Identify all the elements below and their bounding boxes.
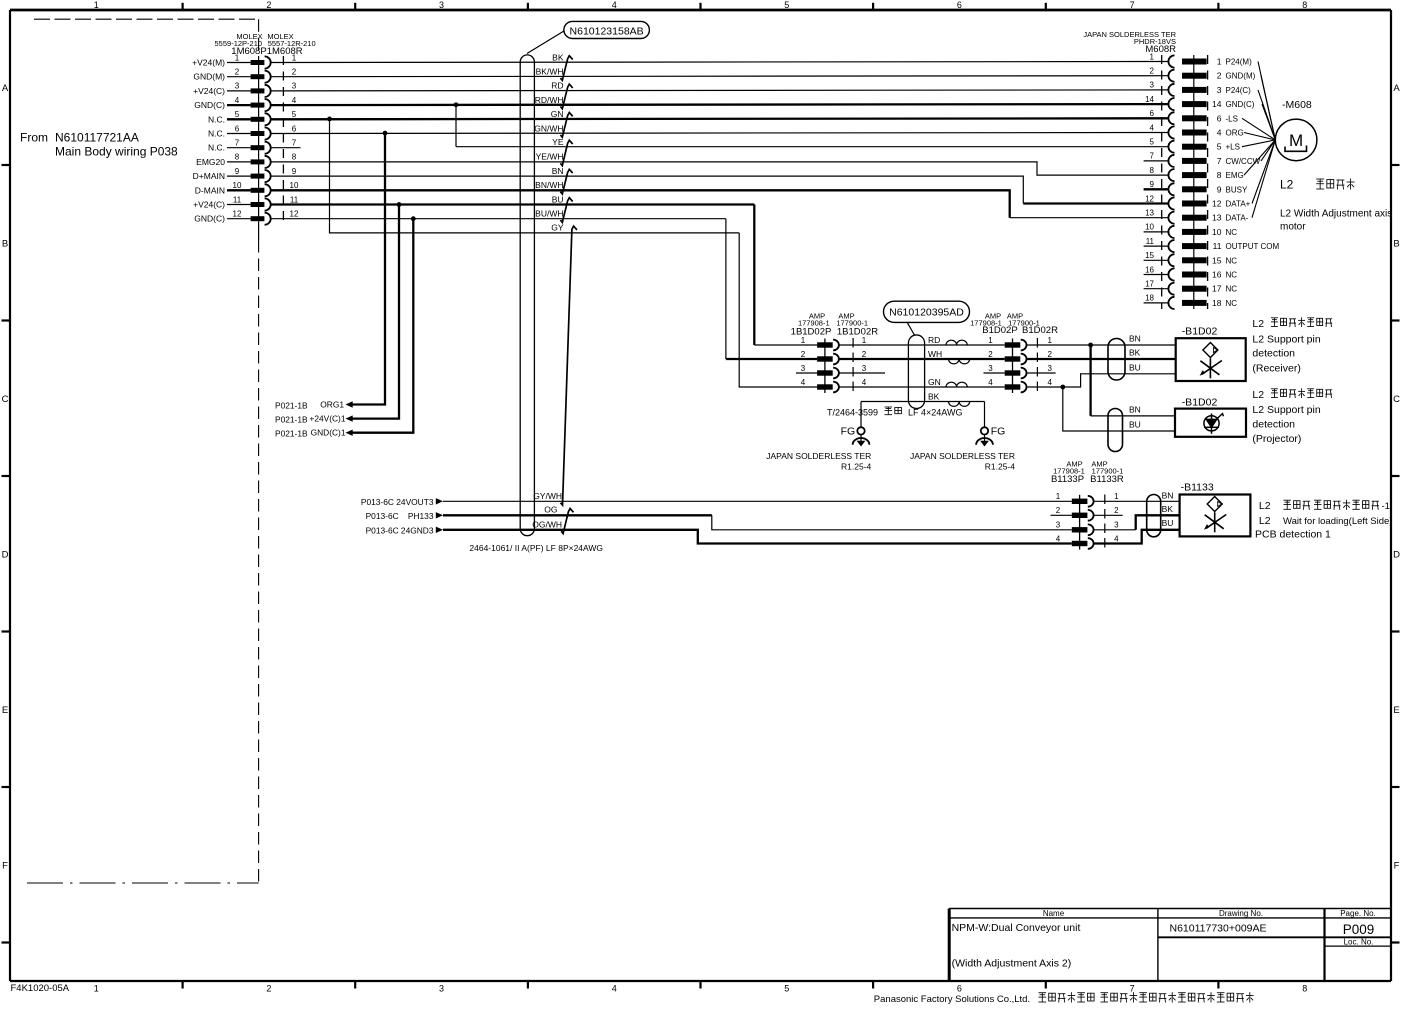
svg-text:GND(C): GND(C) bbox=[194, 214, 225, 224]
svg-text:T/2464-3599: T/2464-3599 bbox=[827, 408, 878, 418]
svg-text:10: 10 bbox=[233, 181, 242, 190]
svg-text:FG: FG bbox=[991, 425, 1006, 437]
svg-text:NC: NC bbox=[1226, 228, 1238, 237]
svg-text:3: 3 bbox=[439, 984, 444, 994]
svg-text:10: 10 bbox=[290, 181, 299, 190]
svg-text:C: C bbox=[2, 394, 9, 405]
svg-text:3: 3 bbox=[292, 82, 297, 91]
svg-text:6: 6 bbox=[1150, 109, 1155, 118]
svg-text:4: 4 bbox=[801, 378, 806, 387]
svg-text:GND(C)1: GND(C)1 bbox=[311, 428, 346, 438]
svg-text:N.C.: N.C. bbox=[208, 114, 225, 124]
svg-text:4: 4 bbox=[612, 984, 617, 994]
svg-text:2: 2 bbox=[266, 0, 271, 10]
svg-text:6: 6 bbox=[957, 984, 962, 994]
svg-text:F4K1020-05A: F4K1020-05A bbox=[11, 983, 70, 994]
svg-text:P013-6C: P013-6C bbox=[366, 525, 399, 535]
svg-text:L2: L2 bbox=[1259, 515, 1271, 527]
svg-text:6: 6 bbox=[235, 124, 240, 133]
svg-text:L2: L2 bbox=[1280, 178, 1294, 192]
svg-text:GND(C): GND(C) bbox=[194, 100, 225, 110]
svg-text:2: 2 bbox=[292, 68, 297, 77]
svg-text:D: D bbox=[1393, 549, 1400, 560]
svg-text:GY/WH: GY/WH bbox=[533, 491, 562, 501]
svg-text:Page. No.: Page. No. bbox=[1340, 909, 1376, 918]
svg-text:5: 5 bbox=[235, 110, 240, 119]
svg-text:P013-6C 24VOUT3: P013-6C 24VOUT3 bbox=[361, 497, 434, 507]
svg-text:EMG: EMG bbox=[1226, 171, 1244, 180]
svg-text:11: 11 bbox=[1213, 241, 1222, 251]
svg-text:L2: L2 bbox=[1259, 500, 1271, 512]
svg-text:BN/WH: BN/WH bbox=[535, 180, 563, 190]
svg-text:9: 9 bbox=[1150, 180, 1155, 189]
svg-text:7: 7 bbox=[1150, 152, 1155, 161]
svg-text:7: 7 bbox=[1130, 984, 1135, 994]
svg-text:3: 3 bbox=[439, 0, 444, 10]
svg-text:4: 4 bbox=[1114, 534, 1119, 543]
svg-text:1: 1 bbox=[94, 0, 99, 10]
svg-text:12: 12 bbox=[1212, 199, 1222, 209]
svg-text:BU: BU bbox=[1129, 420, 1141, 430]
svg-text:JAPAN SOLDERLESS TER: JAPAN SOLDERLESS TER bbox=[910, 451, 1015, 461]
svg-text:14: 14 bbox=[1212, 99, 1222, 109]
svg-text:LF 4×24AWG: LF 4×24AWG bbox=[908, 408, 962, 418]
svg-text:A: A bbox=[1393, 83, 1400, 94]
svg-text:R1.25-4: R1.25-4 bbox=[841, 462, 872, 472]
svg-text:14: 14 bbox=[1145, 95, 1154, 104]
svg-text:2464-1061/ II A(PF) LF 8P×24AW: 2464-1061/ II A(PF) LF 8P×24AWG bbox=[469, 543, 603, 553]
svg-text:P24(M): P24(M) bbox=[1226, 58, 1253, 67]
svg-text:7: 7 bbox=[235, 139, 240, 148]
svg-text:9: 9 bbox=[1217, 184, 1222, 194]
svg-text:12: 12 bbox=[1145, 194, 1154, 203]
svg-text:BN: BN bbox=[1129, 334, 1141, 344]
svg-text:B1133P: B1133P bbox=[1051, 474, 1084, 485]
svg-text:18: 18 bbox=[1145, 294, 1154, 303]
svg-text:15: 15 bbox=[1212, 255, 1222, 265]
svg-text:FG: FG bbox=[841, 425, 856, 437]
svg-text:L2: L2 bbox=[1252, 389, 1264, 401]
svg-text:1B1D02P: 1B1D02P bbox=[791, 327, 832, 338]
svg-text:1: 1 bbox=[988, 336, 993, 345]
svg-text:2: 2 bbox=[988, 350, 993, 359]
svg-text:9: 9 bbox=[235, 167, 240, 176]
svg-text:+V24(C): +V24(C) bbox=[193, 200, 225, 210]
svg-text:(Receiver): (Receiver) bbox=[1252, 362, 1300, 374]
svg-text:4: 4 bbox=[1047, 378, 1052, 387]
svg-text:GND(C): GND(C) bbox=[1226, 100, 1255, 109]
svg-text:2: 2 bbox=[801, 350, 806, 359]
svg-text:2: 2 bbox=[1217, 71, 1222, 81]
svg-text:3: 3 bbox=[988, 364, 993, 373]
svg-text:9: 9 bbox=[292, 167, 297, 176]
svg-text:BK: BK bbox=[1162, 504, 1174, 514]
svg-text:2: 2 bbox=[266, 984, 271, 994]
svg-text:RD: RD bbox=[551, 81, 563, 91]
svg-text:OG: OG bbox=[544, 505, 557, 515]
svg-text:E: E bbox=[2, 705, 8, 716]
svg-text:3: 3 bbox=[1114, 521, 1119, 530]
svg-text:detection: detection bbox=[1252, 418, 1295, 430]
svg-text:7: 7 bbox=[1130, 0, 1135, 10]
svg-text:8: 8 bbox=[292, 153, 297, 162]
svg-text:11: 11 bbox=[1146, 237, 1155, 246]
svg-text:18: 18 bbox=[1212, 298, 1222, 308]
svg-text:3: 3 bbox=[1056, 521, 1061, 530]
svg-text:BU: BU bbox=[552, 194, 564, 204]
svg-text:6: 6 bbox=[1217, 113, 1222, 123]
svg-text:NC: NC bbox=[1226, 256, 1238, 265]
svg-text:4: 4 bbox=[988, 378, 993, 387]
svg-text:GN: GN bbox=[551, 109, 564, 119]
svg-text:BU: BU bbox=[1129, 362, 1141, 372]
svg-text:1: 1 bbox=[1217, 57, 1222, 67]
svg-text:4: 4 bbox=[1217, 128, 1222, 138]
svg-text:D: D bbox=[2, 549, 9, 560]
svg-text:GN: GN bbox=[928, 377, 941, 387]
svg-text:BK: BK bbox=[928, 391, 940, 401]
svg-text:4: 4 bbox=[235, 96, 240, 105]
svg-text:1: 1 bbox=[1114, 492, 1119, 501]
svg-text:(Projector): (Projector) bbox=[1252, 433, 1301, 445]
svg-text:-B1133: -B1133 bbox=[1181, 482, 1214, 494]
svg-text:10: 10 bbox=[1212, 227, 1222, 237]
svg-text:F: F bbox=[1394, 860, 1400, 871]
svg-text:N610120395AD: N610120395AD bbox=[889, 306, 964, 318]
svg-text:-1: -1 bbox=[1382, 501, 1390, 512]
svg-text:PH133: PH133 bbox=[408, 511, 434, 521]
svg-text:-LS: -LS bbox=[1226, 114, 1238, 123]
svg-text:3: 3 bbox=[862, 364, 867, 373]
svg-text:13: 13 bbox=[1212, 213, 1222, 223]
svg-text:+24V(C)1: +24V(C)1 bbox=[309, 414, 345, 424]
svg-text:17: 17 bbox=[1212, 284, 1222, 294]
svg-text:B1D02R: B1D02R bbox=[1022, 325, 1058, 336]
svg-text:N.C.: N.C. bbox=[208, 143, 225, 153]
svg-text:1B1D02R: 1B1D02R bbox=[837, 327, 878, 338]
svg-text:15: 15 bbox=[1145, 251, 1154, 260]
svg-text:OUTPUT COM: OUTPUT COM bbox=[1226, 242, 1280, 251]
svg-text:12: 12 bbox=[233, 210, 242, 219]
svg-text:DATA+: DATA+ bbox=[1226, 200, 1251, 209]
svg-text:5: 5 bbox=[1217, 142, 1222, 152]
svg-text:BK: BK bbox=[1129, 348, 1141, 358]
svg-text:P021-1B: P021-1B bbox=[275, 429, 308, 439]
svg-text:L2 Support pin: L2 Support pin bbox=[1252, 404, 1320, 416]
svg-text:M: M bbox=[1289, 131, 1303, 150]
svg-text:D+MAIN: D+MAIN bbox=[193, 171, 225, 181]
svg-text:P24(C): P24(C) bbox=[1226, 86, 1252, 95]
svg-text:-B1D02: -B1D02 bbox=[1182, 326, 1218, 338]
svg-text:N610117721AA: N610117721AA bbox=[55, 131, 139, 145]
svg-text:GN/WH: GN/WH bbox=[534, 123, 563, 133]
svg-text:NPM-W:Dual Conveyor unit: NPM-W:Dual Conveyor unit bbox=[952, 922, 1081, 934]
svg-text:2: 2 bbox=[1047, 350, 1052, 359]
svg-text:NC: NC bbox=[1226, 285, 1238, 294]
svg-text:N610117730+009AE: N610117730+009AE bbox=[1169, 923, 1266, 935]
svg-text:3: 3 bbox=[235, 82, 240, 91]
svg-text:BN: BN bbox=[1162, 490, 1174, 500]
svg-text:13: 13 bbox=[1145, 209, 1154, 218]
svg-text:P021-1B: P021-1B bbox=[275, 414, 308, 424]
svg-text:1: 1 bbox=[1056, 492, 1061, 501]
svg-text:4: 4 bbox=[1056, 534, 1061, 543]
svg-text:4: 4 bbox=[612, 0, 617, 10]
svg-text:N.C.: N.C. bbox=[208, 129, 225, 139]
svg-text:1: 1 bbox=[1150, 52, 1155, 61]
svg-text:10: 10 bbox=[1145, 223, 1154, 232]
svg-text:YE: YE bbox=[552, 137, 564, 147]
svg-text:RD/WH: RD/WH bbox=[535, 95, 564, 105]
svg-text:P013-6C: P013-6C bbox=[366, 511, 399, 521]
svg-text:7: 7 bbox=[1217, 156, 1222, 166]
svg-text:L2: L2 bbox=[1252, 318, 1264, 330]
svg-text:WH: WH bbox=[928, 349, 942, 359]
svg-text:motor: motor bbox=[1280, 222, 1306, 233]
svg-text:GND(M): GND(M) bbox=[1226, 72, 1256, 81]
svg-text:P021-1B: P021-1B bbox=[275, 400, 308, 410]
svg-text:GND(M): GND(M) bbox=[193, 72, 225, 82]
svg-text:ORG1: ORG1 bbox=[320, 400, 344, 410]
svg-text:BU: BU bbox=[1162, 518, 1174, 528]
svg-text:B: B bbox=[2, 238, 8, 249]
svg-text:2: 2 bbox=[1114, 506, 1119, 515]
svg-text:DATA-: DATA- bbox=[1226, 214, 1249, 223]
svg-text:8: 8 bbox=[1150, 166, 1155, 175]
svg-text:+V24(M): +V24(M) bbox=[192, 58, 225, 68]
svg-text:4: 4 bbox=[1150, 123, 1155, 132]
svg-text:Main Body wiring P038: Main Body wiring P038 bbox=[55, 144, 178, 158]
svg-text:RD: RD bbox=[928, 335, 940, 345]
svg-text:2: 2 bbox=[862, 350, 867, 359]
svg-text:-M608: -M608 bbox=[1282, 99, 1312, 111]
svg-text:NC: NC bbox=[1226, 271, 1238, 280]
svg-text:B: B bbox=[1393, 238, 1399, 249]
svg-text:16: 16 bbox=[1212, 270, 1222, 280]
svg-text:6: 6 bbox=[957, 0, 962, 10]
svg-text:2: 2 bbox=[235, 68, 240, 77]
svg-text:6: 6 bbox=[292, 124, 297, 133]
svg-text:8: 8 bbox=[235, 153, 240, 162]
svg-text:R1.25-4: R1.25-4 bbox=[985, 462, 1016, 472]
svg-text:1: 1 bbox=[94, 984, 99, 994]
svg-text:L2 Width Adjustment axis: L2 Width Adjustment axis bbox=[1280, 208, 1392, 219]
svg-text:7: 7 bbox=[292, 139, 297, 148]
svg-text:4: 4 bbox=[862, 378, 867, 387]
svg-text:ORG: ORG bbox=[1226, 129, 1244, 138]
svg-text:1: 1 bbox=[292, 53, 297, 62]
svg-text:From: From bbox=[20, 131, 48, 145]
svg-text:D-MAIN: D-MAIN bbox=[195, 185, 225, 195]
svg-text:8: 8 bbox=[1302, 0, 1307, 10]
svg-text:Name: Name bbox=[1043, 909, 1065, 918]
svg-text:BUSY: BUSY bbox=[1226, 185, 1248, 194]
svg-text:1: 1 bbox=[1047, 336, 1052, 345]
svg-text:NC: NC bbox=[1226, 299, 1238, 308]
svg-text:8: 8 bbox=[1302, 984, 1307, 994]
svg-text:F: F bbox=[2, 860, 8, 871]
svg-text:1M608R: 1M608R bbox=[267, 46, 303, 57]
svg-text:(Width Adjustment Axis 2): (Width Adjustment Axis 2) bbox=[952, 958, 1072, 970]
svg-text:detection: detection bbox=[1252, 348, 1295, 360]
svg-text:E: E bbox=[1393, 705, 1399, 716]
svg-text:3: 3 bbox=[1150, 81, 1155, 90]
svg-text:BN: BN bbox=[1129, 404, 1141, 414]
svg-text:5: 5 bbox=[784, 0, 789, 10]
svg-text:11: 11 bbox=[233, 195, 242, 204]
svg-text:BN: BN bbox=[552, 166, 564, 176]
svg-text:OG/WH: OG/WH bbox=[532, 519, 562, 529]
svg-text:+V24(C): +V24(C) bbox=[193, 86, 225, 96]
svg-text:3: 3 bbox=[1217, 85, 1222, 95]
svg-text:5: 5 bbox=[292, 110, 297, 119]
svg-text:12: 12 bbox=[290, 210, 299, 219]
svg-text:A: A bbox=[2, 83, 9, 94]
svg-text:4: 4 bbox=[292, 96, 297, 105]
svg-text:YE/WH: YE/WH bbox=[536, 152, 564, 162]
svg-text:BK/WH: BK/WH bbox=[536, 67, 564, 77]
svg-text:5: 5 bbox=[784, 984, 789, 994]
svg-text:B1133R: B1133R bbox=[1090, 474, 1124, 485]
svg-text:11: 11 bbox=[290, 195, 299, 204]
svg-text:Panasonic Factory Solutions Co: Panasonic Factory Solutions Co.,Ltd. bbox=[874, 994, 1030, 1005]
svg-text:2: 2 bbox=[1150, 67, 1155, 76]
svg-text:JAPAN SOLDERLESS TER: JAPAN SOLDERLESS TER bbox=[766, 451, 871, 461]
svg-text:N610123158AB: N610123158AB bbox=[570, 25, 644, 37]
svg-text:Loc. No.: Loc. No. bbox=[1344, 938, 1374, 947]
svg-text:16: 16 bbox=[1145, 265, 1154, 274]
svg-text:1: 1 bbox=[235, 53, 240, 62]
svg-text:P009: P009 bbox=[1343, 922, 1375, 937]
svg-text:8: 8 bbox=[1217, 170, 1222, 180]
svg-text:17: 17 bbox=[1145, 280, 1154, 289]
svg-text:2: 2 bbox=[1056, 506, 1061, 515]
svg-text:CW/CCW: CW/CCW bbox=[1226, 157, 1261, 166]
svg-text:5: 5 bbox=[1150, 138, 1155, 147]
svg-text:Wait for loading(Left Side): Wait for loading(Left Side) bbox=[1283, 516, 1392, 527]
svg-text:BK: BK bbox=[552, 52, 564, 62]
svg-text:EMG20: EMG20 bbox=[196, 157, 225, 167]
svg-text:1: 1 bbox=[862, 336, 867, 345]
svg-text:-B1D02: -B1D02 bbox=[1182, 397, 1218, 409]
svg-text:GY: GY bbox=[551, 223, 564, 233]
svg-text:1: 1 bbox=[801, 336, 806, 345]
svg-text:B1D02P: B1D02P bbox=[982, 325, 1017, 336]
svg-text:L2 Support pin: L2 Support pin bbox=[1252, 333, 1320, 345]
svg-text:3: 3 bbox=[801, 364, 806, 373]
svg-text:24GND3: 24GND3 bbox=[401, 525, 434, 535]
svg-text:C: C bbox=[1393, 394, 1400, 405]
svg-text:PCB detection 1: PCB detection 1 bbox=[1255, 529, 1331, 541]
svg-text:Drawing No.: Drawing No. bbox=[1219, 909, 1263, 918]
svg-text:3: 3 bbox=[1047, 364, 1052, 373]
svg-text:BU/WH: BU/WH bbox=[535, 209, 563, 219]
svg-text:+LS: +LS bbox=[1226, 143, 1240, 152]
